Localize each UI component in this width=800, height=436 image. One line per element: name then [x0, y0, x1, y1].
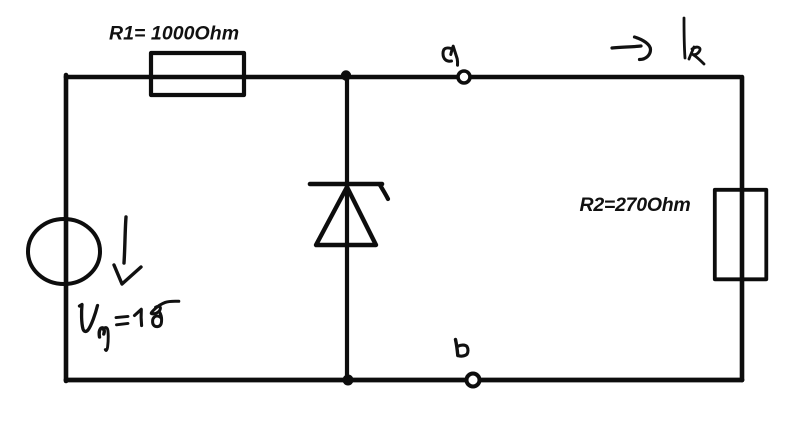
wire top [66, 75, 740, 80]
voltage source Vg [28, 219, 100, 284]
resistor R1 [151, 53, 244, 95]
node a terminal circle [458, 71, 470, 83]
node a label [443, 46, 458, 65]
junction dot top of diode branch [341, 70, 351, 80]
wire diode branch [345, 77, 349, 380]
label IR [684, 18, 704, 64]
resistor R2 [715, 190, 767, 279]
wire bottom [66, 378, 742, 383]
svg-text:R1= 1000Ohm: R1= 1000Ohm [109, 23, 239, 45]
zener diode D1 triangle [316, 187, 376, 245]
voltage direction arrow (handwritten down arrow) [114, 217, 141, 284]
node b label [456, 340, 468, 357]
svg-text:R2=270Ohm: R2=270Ohm [580, 194, 691, 216]
junction dot bottom of diode branch [343, 375, 354, 386]
label Vg = 18 (handwritten) [80, 301, 179, 350]
zener diode D1 cathode bar [310, 184, 388, 199]
wire right [740, 77, 745, 380]
node b terminal circle [467, 374, 480, 387]
label R2 value [580, 194, 691, 216]
label R1 value [109, 23, 239, 45]
wire left [64, 75, 69, 381]
current arrow IR (handwritten right arrow) [612, 37, 651, 60]
